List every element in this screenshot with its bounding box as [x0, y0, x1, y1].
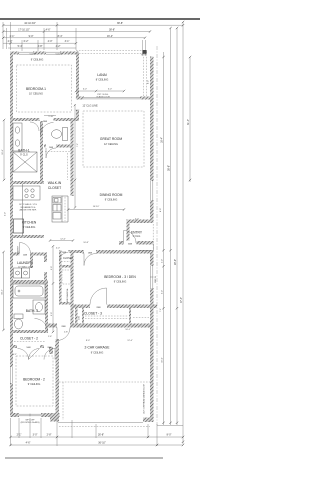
left margin dims [2, 120, 7, 330]
svg-text:14'-10": 14'-10" [93, 206, 100, 208]
svg-text:CLOSET - 2: CLOSET - 2 [20, 337, 38, 341]
svg-text:12' CEILING: 12' CEILING [104, 143, 118, 146]
bath1 shower [13, 152, 37, 172]
svg-text:4'-0": 4'-0" [135, 218, 139, 220]
wall: closet3 south / garage north [48, 324, 154, 328]
svg-text:CLOSET - 3: CLOSET - 3 [84, 312, 102, 316]
kitchen peninsula [52, 196, 68, 222]
wall: pantry south [10, 253, 44, 256]
door arc: bath1 [30, 122, 39, 131]
window: bedroom-1 north 2 [46, 52, 60, 55]
svg-text:3068: 3068 [128, 243, 132, 245]
wall: laundry south / bath2 north [10, 280, 48, 284]
wall: entry jog horizontal [127, 220, 154, 224]
dimension line top row 5 [8, 45, 76, 48]
wall: bath2 east [45, 283, 48, 333]
dim line 29'-0" [176, 28, 178, 425]
svg-text:38'-8": 38'-8" [109, 29, 115, 32]
svg-text:2-CAR GARAGE: 2-CAR GARAGE [85, 346, 111, 350]
svg-text:4'-1": 4'-1" [13, 354, 17, 356]
dim line 16'-4" [163, 52, 165, 425]
door arc: pantry [20, 243, 31, 254]
svg-text:9' CEILING: 9' CEILING [23, 226, 36, 229]
door opening laundry [44, 262, 48, 272]
garage ceiling dashed [59, 381, 153, 383]
svg-text:4'-6": 4'-6" [46, 29, 51, 32]
svg-text:8'-0": 8'-0" [148, 80, 150, 84]
dim line 77'-4" [182, 22, 184, 444]
svg-text:6'-0": 6'-0" [83, 89, 87, 91]
pocket slider opening [84, 96, 140, 100]
mechanical unit dashed [62, 270, 71, 284]
wall: entry west vertical [127, 220, 130, 244]
svg-text:3'-0": 3'-0" [51, 266, 53, 270]
svg-text:9' CEILING: 9' CEILING [105, 199, 118, 202]
wall: kitchen south / pantry north [10, 235, 44, 238]
right column mid ticks [162, 249, 178, 309]
door arc: entry [124, 231, 137, 244]
door opening bedroom3 south [90, 304, 107, 308]
svg-text:BATH- 2: BATH- 2 [26, 309, 39, 313]
svg-text:17'-10 1/2": 17'-10 1/2" [18, 29, 30, 32]
bottom dim row 1 [11, 433, 184, 437]
wall: great room north (pocket slider) [76, 97, 153, 100]
svg-text:4'-6": 4'-6" [26, 441, 31, 444]
svg-text:2868: 2868 [43, 121, 47, 123]
door opening: closet2 double doors [17, 345, 40, 349]
door opening: walk-in [46, 144, 56, 148]
dim line 31'-4" [189, 57, 191, 182]
bottom arrow ticks [9, 436, 184, 446]
svg-text:2868: 2868 [96, 307, 100, 309]
cooktop [25, 189, 34, 198]
svg-text:2'-0": 2'-0" [8, 40, 13, 43]
wall: wc north (bedroom1 south continues) [44, 145, 74, 148]
window: bedroom3 east [150, 266, 154, 288]
wall: bath1/walkin divider [40, 121, 43, 184]
svg-text:LAUNDRY: LAUNDRY [17, 261, 33, 265]
svg-text:2668: 2668 [47, 347, 51, 349]
svg-text:8'-0": 8'-0" [86, 340, 90, 342]
interior dim: 5-10 [44, 116, 56, 119]
window: bedroom2 south [19, 413, 41, 417]
door arc: bedroom3 south [90, 288, 107, 305]
svg-text:4'-2": 4'-2" [56, 45, 61, 48]
svg-text:DINING ROOM: DINING ROOM [100, 193, 123, 197]
dimension line top row 1 [3, 22, 183, 25]
svg-text:8'-0": 8'-0" [167, 433, 172, 436]
svg-text:CLOSET: CLOSET [63, 257, 73, 260]
svg-text:BEDROOM - 3 / DEN: BEDROOM - 3 / DEN [104, 275, 136, 279]
wc toilet [52, 128, 68, 141]
arrow ticks right dims [162, 21, 191, 443]
wall: west exterior [10, 52, 13, 418]
wall: bedroom3 south [74, 305, 158, 309]
svg-text:2668: 2668 [49, 147, 53, 149]
misc arrow ticks [2, 90, 125, 331]
wall: east exterior (great room) [150, 57, 154, 223]
dim line lanai 6-0 [76, 89, 124, 91]
svg-text:3'-0": 3'-0" [51, 312, 53, 316]
svg-text:LIN.: LIN. [79, 316, 81, 320]
bottom dim row 2 [11, 441, 184, 445]
wall: closet3 east divider [129, 308, 131, 324]
window: bedroom2 west [10, 367, 13, 383]
door arc: garage entry [57, 328, 70, 341]
svg-text:ABOVE THE REF.: ABOVE THE REF. [20, 209, 37, 212]
svg-text:9' CLG: 9' CLG [20, 154, 28, 157]
svg-text:4'-0": 4'-0" [56, 247, 60, 249]
door opening garage entry [57, 323, 70, 328]
svg-text:W/CABINETS &: W/CABINETS & [21, 206, 37, 209]
wall: bath2 south / closet2 north [10, 330, 48, 333]
dimension line top row 4 [3, 40, 76, 43]
svg-text:5-0x4-6: 5-0x4-6 [56, 53, 64, 55]
svg-text:5068: 5068 [26, 347, 30, 349]
svg-text:16'-4": 16'-4" [161, 137, 164, 143]
property line top [0, 18, 200, 20]
door opening: entry [124, 241, 137, 245]
bath2 vanity [33, 300, 45, 314]
wall: closet3 west divider [75, 308, 78, 324]
svg-text:42'-10 3/4": 42'-10 3/4" [24, 22, 36, 25]
svg-text:2868: 2868 [61, 326, 65, 328]
lanai dashed east edge [144, 51, 147, 97]
dim line garage corner [157, 425, 183, 427]
svg-text:2468: 2468 [62, 252, 66, 254]
wall: entry door wall [119, 241, 154, 245]
peninsula overhang dashed [64, 197, 66, 221]
wall: laundry east [44, 253, 47, 284]
svg-text:12' CLG LINE: 12' CLG LINE [82, 105, 98, 108]
svg-text:2'-8": 2'-8" [64, 332, 68, 334]
jamb: bedroom2/garage [49, 347, 53, 354]
dim line hall 12'-6 [50, 240, 73, 242]
svg-text:1'-6": 1'-6" [48, 336, 52, 338]
door opening bedroom3 [84, 250, 96, 254]
door opening: bedroom-1 [40, 118, 54, 122]
wall: hall east / dining west lower [71, 250, 74, 325]
svg-text:5'-4": 5'-4" [18, 45, 23, 48]
tray ceiling bedroom-1 [17, 65, 72, 112]
svg-text:5040 SL: 5040 SL [155, 276, 157, 283]
svg-text:10'-1": 10'-1" [125, 329, 131, 331]
door size labels [23, 121, 132, 349]
wall: bedroom2 south exterior [10, 413, 60, 417]
driveway line [5, 457, 163, 459]
wall: garage south stub west [50, 417, 59, 422]
svg-text:5-0x4-6: 5-0x4-6 [30, 53, 38, 55]
right dimension column [157, 21, 191, 444]
washer dryer [14, 268, 30, 278]
svg-text:ENTRY: ENTRY [131, 231, 143, 235]
refrigerator [14, 219, 24, 233]
svg-text:5'-10": 5'-10" [48, 116, 54, 118]
door opening hall closet [60, 250, 69, 254]
lanai dashed north edge [76, 51, 144, 54]
svg-text:36" 2 SHELF / LTG: 36" 2 SHELF / LTG [19, 204, 37, 206]
door arc: closet2 left [18, 349, 40, 360]
svg-text:36'-10": 36'-10" [98, 441, 106, 444]
tray ceiling great room [83, 111, 144, 167]
wall: bedroom3 north [82, 250, 154, 254]
svg-text:4'-0": 4'-0" [48, 40, 53, 43]
wall: closet2 south / bedroom2 north [10, 345, 59, 348]
svg-text:3'-8": 3'-8" [38, 45, 43, 48]
svg-text:GLASS DOOR: GLASS DOOR [96, 96, 110, 99]
bath1 vanity [13, 123, 22, 151]
wall: garage south stub east [143, 418, 154, 423]
door arc: bedroom2 [44, 349, 55, 360]
wall: kitchen north / walkin south [10, 181, 44, 184]
svg-text:19'-0": 19'-0" [162, 357, 164, 363]
closet3 rods [85, 315, 128, 317]
opening: bedroom-1 east [76, 98, 80, 110]
dimension line top row 2 [3, 29, 150, 32]
porch screen dashed [152, 224, 154, 250]
svg-text:12'-4": 12'-4" [127, 340, 133, 342]
door arc: bedroom1 [41, 123, 54, 136]
svg-text:6'-0": 6'-0" [108, 89, 112, 91]
svg-text:LANAI: LANAI [97, 73, 107, 77]
dim line 38'-8" [170, 28, 172, 425]
wall: pantry/laundry stub [30, 253, 33, 269]
interior dim near dining [68, 209, 124, 211]
svg-text:2868: 2868 [88, 252, 92, 254]
svg-text:31'-4": 31'-4" [187, 119, 190, 125]
svg-text:2468: 2468 [23, 254, 27, 256]
window: bedroom-1 north 1 [19, 52, 33, 55]
svg-text:10'-8": 10'-8" [83, 242, 89, 244]
svg-text:MECHANICAL: MECHANICAL [66, 287, 69, 301]
svg-text:CLOSET: CLOSET [48, 186, 61, 190]
svg-text:12'-6": 12'-6" [2, 149, 4, 155]
door arc: closet2 right [29, 349, 40, 360]
garage apron dashed [59, 426, 150, 428]
porch edge [133, 244, 154, 251]
bath2 tub [13, 284, 45, 298]
door opening: bedroom2 [44, 345, 55, 349]
wall: mech south [59, 302, 74, 305]
svg-text:BEDROOM - 2: BEDROOM - 2 [23, 378, 45, 382]
svg-text:16'-4": 16'-4" [107, 35, 113, 38]
garage tandem dashed vertical [62, 382, 64, 420]
svg-text:10' CEILING: 10' CEILING [29, 93, 43, 96]
svg-text:12'-6": 12'-6" [60, 238, 66, 240]
walkin rods [45, 151, 70, 153]
door arc: hall closet [60, 253, 69, 262]
wall: closet south / mech north [59, 265, 74, 268]
svg-text:3'-1": 3'-1" [65, 40, 70, 43]
svg-text:38'-8": 38'-8" [117, 22, 123, 25]
wall: garage east [150, 308, 154, 422]
door arc: bath2 [35, 319, 48, 332]
hall closet rod [61, 261, 70, 263]
svg-text:5'-0": 5'-0" [162, 290, 164, 294]
wall: garage west [56, 339, 60, 417]
wall: hall closet north [59, 250, 111, 253]
garage door line [58, 422, 143, 424]
svg-text:77'-4": 77'-4" [180, 297, 183, 303]
svg-text:3'-0": 3'-0" [33, 433, 38, 436]
svg-text:38'-8": 38'-8" [168, 165, 171, 171]
closet2 rod [14, 341, 45, 343]
wall: bedroom-1 north [10, 52, 79, 55]
bottom extension lines [11, 418, 158, 446]
hall vertical dim [52, 246, 54, 332]
top extension ticks [3, 22, 147, 56]
svg-text:16x7 OVERHEAD GARAGE DOOR: 16x7 OVERHEAD GARAGE DOOR [143, 383, 146, 414]
svg-text:10'-2": 10'-2" [2, 289, 4, 295]
svg-text:3'-0": 3'-0" [5, 212, 7, 216]
svg-text:WALK-IN: WALK-IN [48, 181, 62, 185]
centerline lanai [156, 46, 158, 425]
svg-text:9' CEILING: 9' CEILING [28, 383, 41, 386]
door opening pantry south [20, 252, 31, 256]
svg-text:BEDROOM-1: BEDROOM-1 [26, 87, 46, 91]
kitchen counter left [13, 184, 40, 235]
svg-text:8' CEILING: 8' CEILING [96, 79, 109, 82]
svg-text:9' CEILING: 9' CEILING [114, 281, 127, 284]
svg-text:2'-8": 2'-8" [47, 433, 52, 436]
window: east great room [150, 181, 154, 200]
bath2 toilet [14, 314, 23, 329]
svg-text:9'-0": 9'-0" [29, 35, 34, 38]
svg-text:2'-1": 2'-1" [17, 433, 22, 436]
lanai corner post [143, 50, 147, 54]
svg-text:9' CEILING: 9' CEILING [31, 59, 44, 62]
wall: closet3 divider 2 [82, 308, 84, 324]
tray ceiling bedroom2 [16, 356, 53, 406]
door arc: walkin [46, 148, 56, 158]
svg-text:7'-4": 7'-4" [160, 308, 162, 312]
dimension line top row 3 [3, 35, 145, 38]
svg-text:9' CEILING: 9' CEILING [91, 352, 104, 355]
svg-text:26'-8": 26'-8" [98, 433, 104, 436]
svg-text:6'-2": 6'-2" [24, 40, 29, 43]
svg-text:8'-0": 8'-0" [160, 208, 162, 212]
svg-text:2'-0": 2'-0" [162, 259, 164, 263]
wall: hall/great room divider [71, 118, 74, 196]
svg-text:PANTRY: PANTRY [17, 245, 20, 254]
svg-text:KITCHEN: KITCHEN [22, 221, 37, 225]
svg-text:7'-2": 7'-2" [77, 143, 79, 147]
door arc: bedroom3 north [84, 254, 96, 266]
top arrow ticks [2, 24, 184, 44]
svg-text:8'-4": 8'-4" [58, 35, 63, 38]
interior dim: great room width [75, 104, 79, 208]
wall: bedroom-1 east [76, 52, 79, 121]
wall: bedroom3 east [150, 250, 154, 308]
svg-text:GREAT ROOM: GREAT ROOM [100, 137, 122, 141]
wall: hall west at mech [59, 250, 62, 304]
svg-text:29'-0": 29'-0" [174, 259, 177, 265]
wall: bedroom-1 south [10, 118, 79, 121]
